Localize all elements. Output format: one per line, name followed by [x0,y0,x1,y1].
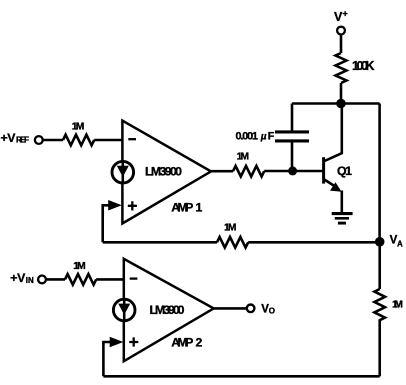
wire 100K to top junction [340,83,343,104]
svg-text:1M: 1M [237,152,250,163]
transistor Q1 collector [325,104,342,162]
svg-text:IN: IN [26,276,34,285]
op-amp U1 AMP1 triangle [122,121,211,224]
wire R to AMP2 minus input [96,278,124,281]
wire bottom rail [103,375,379,378]
svg-text:+V: +V [1,131,17,145]
svg-text:F: F [268,130,275,142]
transistor Q1 base bar [322,157,325,183]
svg-text:A: A [397,239,403,248]
node +VIN label [10,271,34,285]
wire VREF terminal to R [43,139,63,142]
wire R to VA node [248,241,379,244]
node VO label [261,304,275,316]
wire VA line left segment [103,241,217,244]
capacitor C 0.001uF plates [275,130,309,133]
svg-text:1M: 1M [73,261,86,272]
wire V+ to 100K [340,35,343,53]
svg-text:+V: +V [10,271,26,285]
resistor R 1M (right, VA to bottom) [374,289,385,320]
svg-text:+: + [343,9,348,19]
resistor R 100K [336,53,347,83]
svg-text:1M: 1M [72,122,85,133]
terminal VO [247,305,255,313]
wire feedback AMP1 plus input [103,205,109,242]
svg-text:Q1: Q1 [337,164,352,178]
resistor R 1M (VIN input) [65,274,96,285]
wire VA to R 1M right [378,242,381,289]
svg-text:1M: 1M [392,299,403,310]
capacitor C 0.001uF top stub [291,104,294,131]
node V+ label [334,9,348,25]
arrowhead into AMP1 plus input [108,200,122,211]
wire R to bottom rail [378,319,381,376]
wire AMP1 output to R 1M [211,170,233,173]
ground symbol [332,212,353,215]
wire R to AMP1 minus input [94,139,122,142]
transistor Q1 emitter [325,180,338,188]
terminal +VREF [35,136,43,144]
op-amp U2 minus input mark [130,277,138,279]
current source symbol inside AMP2 [113,299,135,321]
op-amp U2 AMP2 triangle [124,259,214,361]
wire feedback AMP2 plus input [103,342,110,376]
svg-text:REF: REF [16,136,29,145]
svg-text:LM3900: LM3900 [150,303,185,317]
capacitor bottom stub [291,142,294,170]
current source symbol inside AMP1 [112,161,134,183]
svg-text:2: 2 [196,336,203,350]
svg-text:0.001: 0.001 [236,130,259,142]
svg-text:µ: µ [260,131,267,142]
op-amp U2 plus input mark [129,337,138,346]
wire right rail down to VA [378,104,381,242]
resistor R 1M (VREF input) [63,135,94,146]
node VA [375,237,385,247]
svg-text:AMP: AMP [171,336,193,350]
wire top horizontal (cap to junction to right rail) [292,102,380,105]
svg-text:1M: 1M [224,222,237,233]
wire AMP2 output to VO [214,307,247,310]
svg-text:O: O [269,306,275,315]
svg-text:1: 1 [196,200,203,214]
terminal V+ [337,27,345,35]
terminal +VIN [38,276,46,284]
svg-text:LM3900: LM3900 [145,165,182,179]
resistor R 1M (AMP1 output) [233,166,264,177]
op-amp U1 plus input mark [128,201,137,210]
op-amp U1 minus input mark [128,138,136,140]
svg-text:100K: 100K [352,59,375,73]
wire R to Q1 base [264,170,322,173]
resistor R 1M (feedback to VA) [217,237,248,248]
node VA label [390,234,403,248]
wire VIN terminal to R [46,278,65,281]
node junction cap/output [288,166,297,175]
node +VREF label [1,131,30,145]
svg-text:AMP: AMP [171,200,193,214]
arrowhead into AMP2 plus input [110,337,124,348]
node junction at top of Q1 collector [336,99,346,109]
